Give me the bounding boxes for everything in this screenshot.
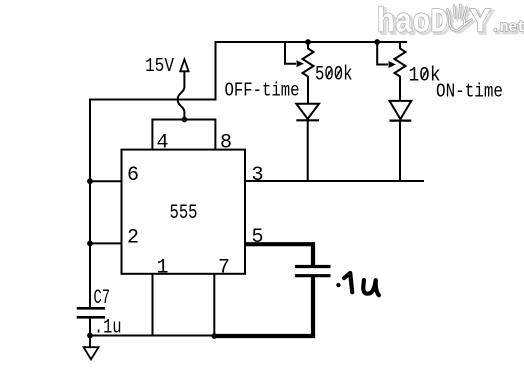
capacitor C7 (77, 308, 105, 317)
svg-text:OFF-time: OFF-time (225, 79, 300, 101)
node junction dots (87, 39, 380, 339)
svg-text:555: 555 (170, 202, 198, 225)
resistor VR1 500k potentiometer (303, 42, 314, 104)
wire pin 2 horizontal (89, 242, 122, 244)
node VR2 wiper junction (374, 39, 380, 45)
wire pin 3 horizontal (245, 180, 424, 182)
capacitor C2 .1u plates (295, 267, 331, 276)
svg-text:500k: 500k (315, 64, 353, 87)
svg-text:2: 2 (127, 227, 139, 250)
svg-text:.1u: .1u (94, 317, 122, 340)
wire pin 8 vertical (214, 119, 216, 150)
wire pins 4-8 top connection horizontal (152, 119, 215, 121)
svg-text:7: 7 (218, 257, 230, 280)
node rail bottom junction (87, 333, 93, 339)
node 15V to pins 4-8 junction (182, 117, 188, 123)
wire diode D2 cathode to pin3 bus (399, 121, 401, 181)
wire capacitor C2 bottom thick vertical (311, 277, 315, 338)
svg-text:4: 4 (157, 132, 169, 155)
watermark logo haoDIY.net (377, 5, 524, 45)
label .1u handwritten (C2 value) (338, 273, 379, 295)
svg-text:15V: 15V (145, 55, 174, 77)
svg-text:C7: C7 (94, 287, 111, 310)
diode D2 (390, 101, 412, 121)
power 15V arrow symbol (180, 59, 188, 71)
svg-text:3: 3 (252, 164, 264, 187)
wire top bus horizontal (215, 41, 408, 43)
svg-text:Y: Y (470, 5, 491, 43)
wiper arrowhead VR1 (297, 60, 304, 67)
node pin7 bottom junction (211, 333, 217, 339)
svg-text:haoD: haoD (377, 5, 448, 43)
svg-text:1: 1 (157, 257, 169, 280)
wire bottom horizontal thick (214, 334, 315, 338)
diode D1 (296, 104, 319, 121)
wire pin 7 vertical (213, 274, 215, 337)
op-amp U1 555 timer body (122, 150, 246, 274)
svg-text:8: 8 (220, 132, 232, 155)
label 500k slashed zeros (327, 69, 341, 78)
wire corner vertical up to top bus (215, 41, 217, 101)
wire left rail vertical (89, 99, 91, 308)
node pin6 rail junction (87, 178, 93, 184)
wire pin 1 vertical (152, 274, 154, 337)
resistor VR2 10k potentiometer (395, 42, 406, 101)
wire top-left horizontal (rail to corner) (89, 99, 216, 101)
wire diode D1 cathode to pin3 bus (307, 121, 309, 181)
wire pin 5 thick to capacitor C2 (245, 244, 313, 265)
wire pin 4 vertical (151, 119, 153, 150)
svg-text:ON-time: ON-time (436, 80, 503, 102)
wire C7 bottom to ground (89, 319, 91, 348)
node VR1 top junction (305, 39, 311, 45)
svg-text:6: 6 (127, 164, 139, 187)
wire bottom horizontal thin (89, 335, 214, 337)
wire 500k wiper connection (285, 41, 296, 64)
node pin2 rail junction (87, 241, 93, 247)
wire squiggle crossover from 15V down to pins 4-8 (178, 71, 185, 120)
wire 10k wiper connection (377, 41, 388, 65)
label 10k slashed zero (422, 70, 427, 79)
wire pin 6 horizontal (89, 180, 122, 182)
ground (84, 347, 99, 359)
wiper arrowhead VR2 (389, 61, 396, 68)
svg-text:.net: .net (491, 20, 524, 36)
